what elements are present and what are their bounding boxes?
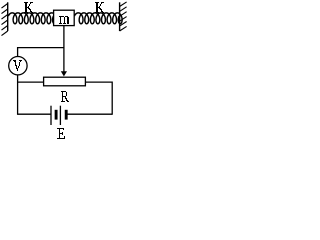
spring K (right): [74, 13, 122, 24]
wiper arrowhead: [61, 71, 67, 76]
left wall: [2, 2, 8, 35]
wire right lead of rheostat: [85, 82, 112, 115]
right wall: [120, 2, 127, 31]
wire left lead of rheostat: [18, 81, 44, 83]
label E: [57, 128, 65, 139]
label K right: [95, 2, 104, 13]
wire bottom rail left: [18, 113, 51, 115]
label K left: [24, 2, 33, 13]
spring K (left): [8, 13, 56, 24]
label V: [13, 60, 22, 71]
wire bottom rail right: [67, 113, 112, 115]
wire voltmeter to bottom rail: [17, 75, 19, 115]
mass m box: [54, 10, 75, 25]
rheostat R body: [44, 77, 86, 86]
voltmeter V: [9, 56, 27, 74]
label m: [59, 16, 69, 24]
wire top horizontal to voltmeter: [18, 48, 64, 57]
label R: [61, 91, 69, 102]
wire from mass to wiper: [63, 26, 65, 72]
battery E: [51, 106, 66, 125]
